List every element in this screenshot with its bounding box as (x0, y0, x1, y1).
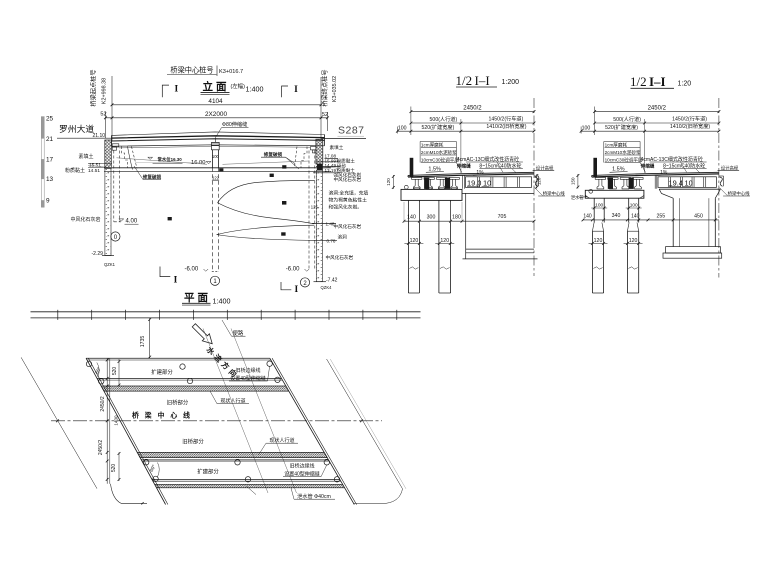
svg-text:旧桥部分: 旧桥部分 (167, 399, 189, 407)
svg-text:I: I (294, 285, 298, 295)
svg-text:便路: 便路 (233, 329, 244, 337)
svg-text:素填土: 素填土 (330, 144, 344, 151)
svg-text:100: 100 (398, 125, 407, 131)
svg-text:180: 180 (452, 215, 461, 221)
svg-text:-7.42: -7.42 (326, 278, 338, 284)
svg-text:I: I (174, 85, 178, 95)
svg-text:120: 120 (594, 238, 603, 244)
svg-text:1:400: 1:400 (246, 85, 264, 94)
svg-text:19.0: 19.0 (467, 179, 481, 188)
svg-text:立 面: 立 面 (203, 80, 227, 93)
svg-text:2450/2: 2450/2 (648, 106, 667, 112)
svg-text:K3+035.02: K3+035.02 (332, 76, 338, 102)
svg-text:桥梁中心桩号: 桥梁中心桩号 (170, 66, 213, 75)
svg-text:4.00: 4.00 (126, 219, 138, 225)
svg-text:21.10: 21.10 (93, 133, 106, 139)
svg-text:1410/2(旧桥宽度): 1410/2(旧桥宽度) (486, 122, 526, 130)
svg-text:17: 17 (46, 156, 54, 163)
svg-text:100: 100 (630, 202, 638, 208)
svg-text:中风化石灰岩: 中风化石灰岩 (334, 223, 362, 230)
svg-text:500(人行道): 500(人行道) (430, 115, 458, 123)
svg-text:QZK1: QZK1 (104, 262, 116, 267)
svg-text:I: I (294, 85, 298, 95)
svg-text:扩建部分: 扩建部分 (197, 468, 219, 476)
svg-text:泄水管 Ф40cm: 泄水管 Ф40cm (297, 492, 331, 500)
svg-text:扩建部分: 扩建部分 (151, 368, 173, 376)
svg-text:I: I (174, 276, 178, 286)
svg-text:520(扩建宽度): 520(扩建宽度) (421, 123, 454, 131)
svg-text:9: 9 (46, 197, 50, 204)
svg-text:中风化石灰岩: 中风化石灰岩 (326, 254, 354, 261)
svg-text:罗州大道: 罗州大道 (59, 123, 94, 134)
svg-text:1400: 1400 (113, 415, 118, 426)
svg-text:100: 100 (212, 154, 220, 159)
svg-text:10: 10 (483, 179, 491, 188)
svg-text:1:200: 1:200 (502, 79, 520, 86)
svg-text:52: 52 (322, 112, 328, 118)
svg-text:I–I: I–I (475, 73, 490, 88)
svg-text:150: 150 (570, 177, 575, 185)
svg-text:4104: 4104 (208, 98, 223, 105)
svg-text:1450/2(行车道): 1450/2(行车道) (488, 115, 523, 123)
svg-text:300: 300 (427, 215, 436, 221)
svg-text:I–I: I–I (649, 74, 666, 89)
svg-text:和强风化灰岩。: 和强风化灰岩。 (329, 204, 363, 211)
svg-text:设计高程: 设计高程 (536, 164, 554, 171)
svg-text:设计高程: 设计高程 (721, 164, 739, 171)
svg-text:物为褐黄色粘性土: 物为褐黄色粘性土 (329, 197, 368, 204)
svg-text:Ф80伸缩缝: Ф80伸缩缝 (222, 120, 247, 128)
svg-text:(左幅): (左幅) (231, 82, 246, 90)
svg-text:1:20: 1:20 (678, 80, 692, 87)
svg-text:1450/2(行车道): 1450/2(行车道) (672, 115, 707, 123)
svg-text:255: 255 (656, 213, 665, 219)
svg-text:0.78: 0.78 (327, 238, 336, 243)
svg-text:1/2: 1/2 (456, 73, 473, 88)
svg-text:8~15cmC40防水砼: 8~15cmC40防水砼 (479, 162, 521, 169)
svg-text:500(人行道): 500(人行道) (613, 115, 641, 123)
svg-text:25: 25 (46, 116, 54, 123)
svg-text:素填土: 素填土 (79, 153, 94, 160)
svg-text:粉质黏土: 粉质黏土 (65, 167, 85, 174)
svg-text:120: 120 (536, 177, 541, 185)
svg-text:旧桥边缘线: 旧桥边缘线 (235, 367, 260, 374)
svg-text:溶洞:全充填，充填: 溶洞:全充填，充填 (329, 190, 369, 197)
svg-text:桥梁起点桩号: 桥梁起点桩号 (90, 69, 98, 106)
svg-text:伸缩缝: 伸缩缝 (640, 163, 655, 170)
svg-text:19.4: 19.4 (669, 179, 683, 188)
svg-text:100: 100 (595, 202, 603, 208)
svg-text:340: 340 (612, 213, 621, 219)
svg-text:2X2000: 2X2000 (205, 111, 227, 118)
svg-text:140: 140 (583, 213, 592, 219)
svg-text:中风化石灰岩: 中风化石灰岩 (334, 176, 362, 183)
svg-text:120: 120 (629, 238, 638, 244)
svg-text:旧桥部分: 旧桥部分 (182, 438, 204, 446)
svg-text:伸缩缝: 伸缩缝 (456, 163, 471, 170)
svg-text:10: 10 (685, 179, 693, 188)
svg-text:桥梁终点桩号: 桥梁终点桩号 (321, 69, 329, 106)
svg-text:120: 120 (410, 238, 419, 244)
svg-text:2450/2: 2450/2 (100, 396, 106, 412)
svg-text:桥梁中心线: 桥梁中心线 (132, 411, 196, 420)
svg-text:2450/2: 2450/2 (98, 440, 104, 456)
svg-text:520: 520 (111, 464, 117, 473)
svg-text:1:400: 1:400 (213, 297, 231, 306)
svg-text:K2+998.38: K2+998.38 (102, 78, 108, 104)
svg-text:-2.29: -2.29 (92, 251, 104, 257)
svg-text:13: 13 (46, 176, 54, 183)
svg-text:8~15cmC40防水砼: 8~15cmC40防水砼 (663, 162, 705, 169)
svg-text:QZK4: QZK4 (321, 285, 333, 290)
svg-text:2450/2: 2450/2 (463, 106, 482, 112)
svg-text:520(扩建宽度): 520(扩建宽度) (605, 123, 638, 131)
svg-text:-6.00: -6.00 (185, 266, 199, 272)
svg-text:K3+016.7: K3+016.7 (219, 69, 243, 75)
svg-text:120: 120 (440, 238, 449, 244)
svg-text:旧桥边缘线: 旧桥边缘线 (289, 463, 314, 470)
svg-text:125: 125 (311, 205, 319, 210)
svg-text:520: 520 (112, 367, 118, 376)
svg-text:S287: S287 (338, 125, 365, 137)
svg-text:1/2: 1/2 (630, 74, 647, 89)
svg-text:14.51: 14.51 (88, 168, 100, 174)
svg-text:705: 705 (498, 214, 507, 220)
svg-text:140: 140 (407, 215, 416, 221)
svg-text:溶洞: 溶洞 (338, 234, 348, 241)
svg-text:1410/2(旧桥宽度): 1410/2(旧桥宽度) (670, 122, 710, 130)
svg-text:140: 140 (631, 214, 640, 220)
svg-text:1735: 1735 (140, 336, 146, 348)
svg-text:100: 100 (582, 125, 591, 131)
svg-text:-6.00: -6.00 (286, 266, 300, 272)
svg-text:平 面: 平 面 (184, 292, 208, 304)
svg-text:中风化石灰岩: 中风化石灰岩 (71, 216, 101, 223)
svg-text:21: 21 (46, 136, 54, 143)
svg-text:52: 52 (100, 112, 106, 118)
svg-text:450: 450 (694, 213, 703, 219)
svg-text:120: 120 (386, 178, 391, 186)
svg-text:122: 122 (212, 176, 220, 181)
